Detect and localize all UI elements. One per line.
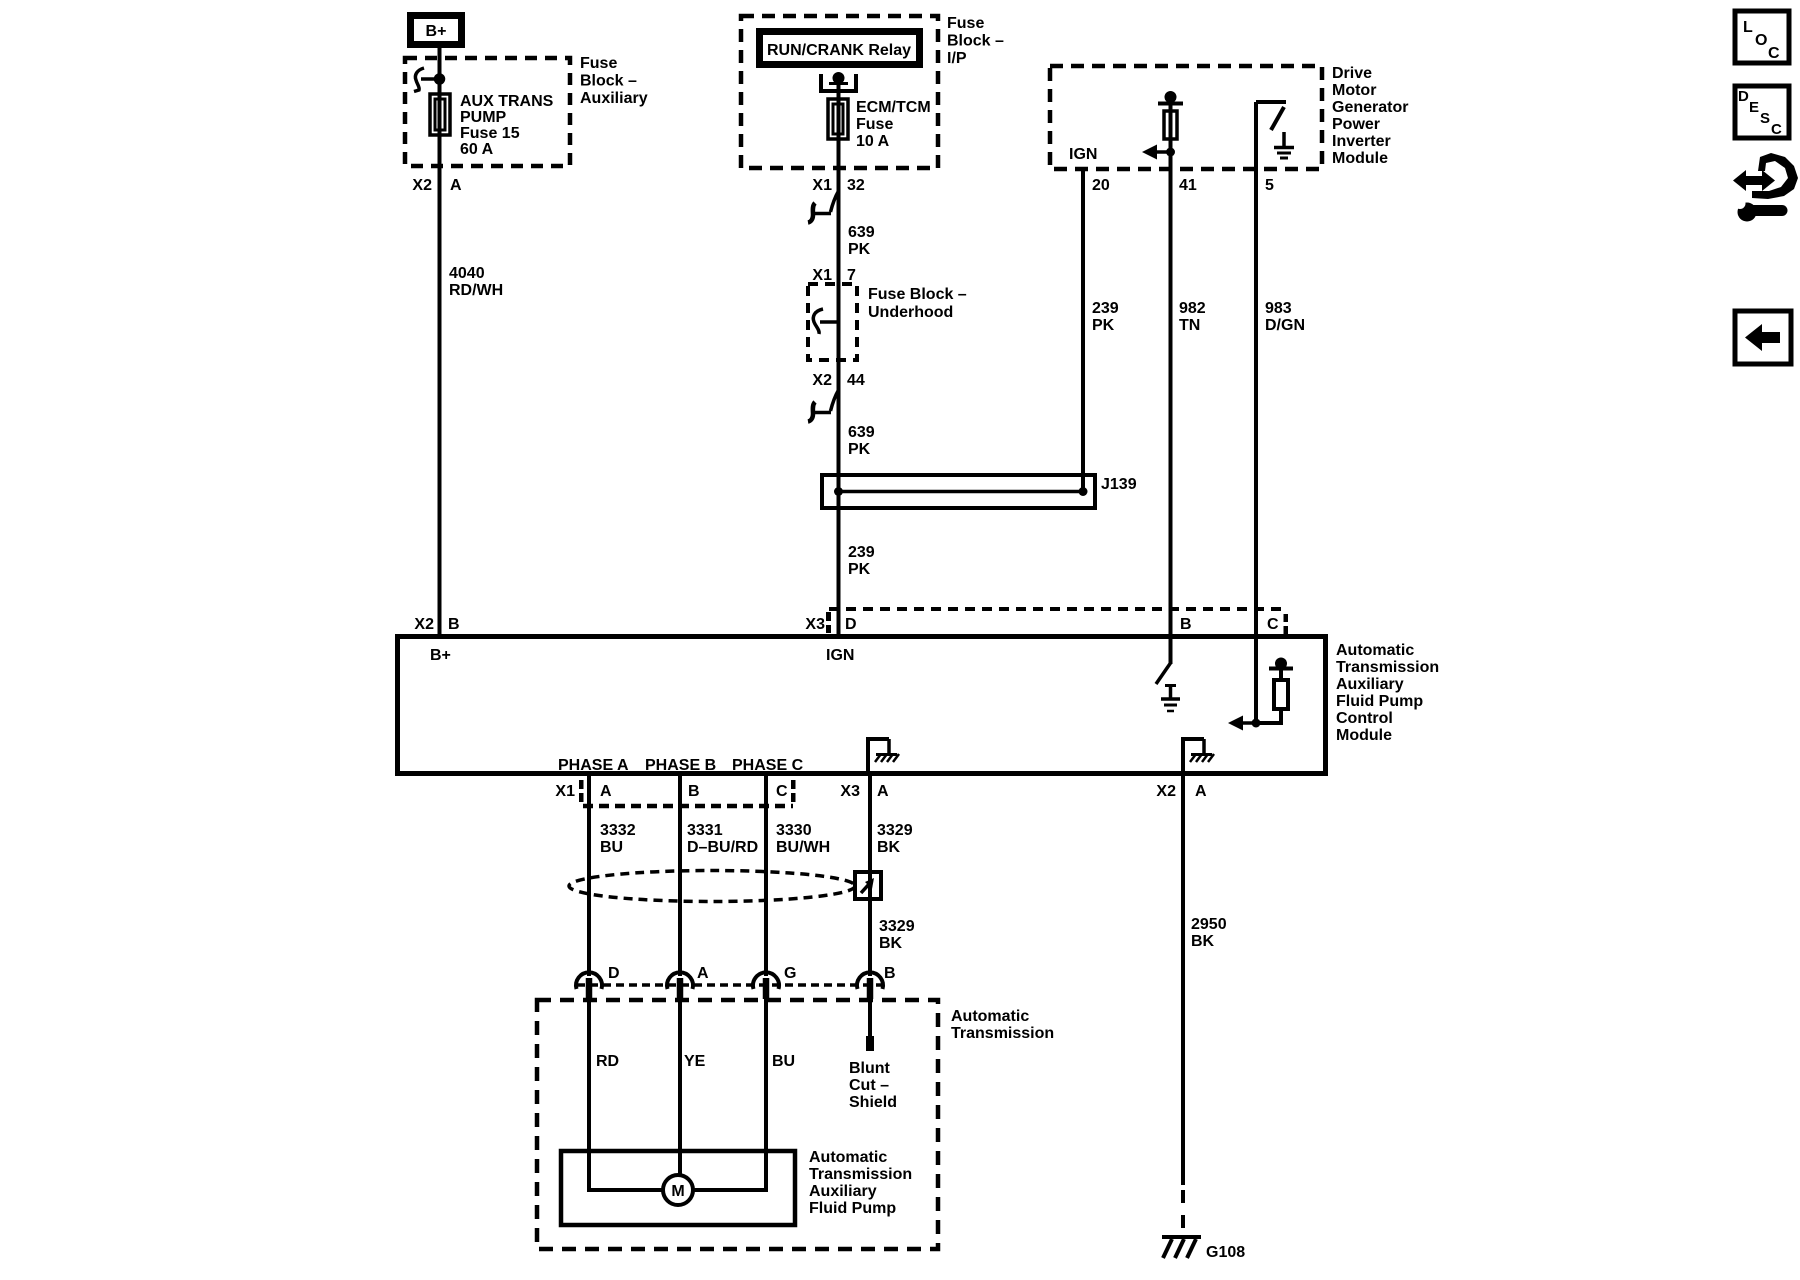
svg-text:239: 239 bbox=[848, 544, 875, 561]
connector arc pin B bbox=[857, 972, 883, 989]
svg-text:B+: B+ bbox=[426, 23, 447, 40]
svg-text:4040: 4040 bbox=[449, 265, 485, 282]
svg-text:32: 32 bbox=[847, 177, 865, 194]
svg-text:A: A bbox=[600, 783, 612, 800]
svg-text:X1: X1 bbox=[812, 177, 832, 194]
svg-text:639: 639 bbox=[848, 424, 875, 441]
pin X2 44 of fuse block underhood bbox=[812, 372, 864, 389]
svg-text:639: 639 bbox=[848, 224, 875, 241]
label Blunt Cut Shield bbox=[849, 1060, 897, 1111]
label Fuse Block I/P bbox=[947, 15, 1004, 67]
connector arc pin D bbox=[576, 972, 602, 989]
label Drive Motor Generator Power Inverter Module bbox=[1332, 65, 1408, 167]
terminal hook at X2 44 bbox=[808, 390, 839, 422]
svg-text:D–BU/RD: D–BU/RD bbox=[687, 839, 758, 856]
pins 20 41 5 labels bbox=[1092, 177, 1274, 194]
related-info icon (arrows and wrench) bbox=[1733, 153, 1798, 222]
svg-text:C: C bbox=[1267, 616, 1279, 633]
ground G108 bbox=[1162, 1237, 1245, 1261]
connector pin letters D A G B bbox=[608, 965, 896, 982]
shield drain box on 3329 BK bbox=[855, 872, 881, 899]
svg-text:Fluid Pump: Fluid Pump bbox=[809, 1200, 896, 1217]
svg-text:Shield: Shield bbox=[849, 1094, 897, 1111]
wire label 4040 RD/WH bbox=[449, 265, 503, 299]
fuse F15 AUX TRANS PUMP 60A bbox=[430, 94, 450, 135]
svg-text:5: 5 bbox=[1265, 177, 1274, 194]
switch to ground inside module (pin B) bbox=[1156, 663, 1180, 711]
svg-text:D: D bbox=[1738, 88, 1749, 105]
terminal hook inside underhood box bbox=[813, 309, 838, 334]
svg-text:PK: PK bbox=[1092, 317, 1115, 334]
splice pack J139 bbox=[822, 475, 1137, 508]
chassis ground inside module (X3 A) bbox=[868, 739, 899, 774]
svg-text:Transmission: Transmission bbox=[1336, 659, 1439, 676]
svg-text:Automatic: Automatic bbox=[951, 1008, 1029, 1025]
svg-text:3331: 3331 bbox=[687, 822, 723, 839]
svg-text:PK: PK bbox=[848, 561, 871, 578]
svg-text:3332: 3332 bbox=[600, 822, 636, 839]
svg-text:Automatic: Automatic bbox=[1336, 642, 1414, 659]
svg-text:Drive: Drive bbox=[1332, 65, 1372, 82]
fuse block I/P dashed box bbox=[741, 16, 938, 168]
svg-text:B: B bbox=[448, 616, 460, 633]
svg-text:D/GN: D/GN bbox=[1265, 317, 1305, 334]
ground inside inverter bbox=[1274, 132, 1294, 158]
svg-text:X3: X3 bbox=[805, 616, 825, 633]
arrow to IGN node bbox=[1142, 145, 1175, 160]
wire label 639 PK (upper) bbox=[848, 224, 875, 258]
svg-text:PHASE A: PHASE A bbox=[558, 757, 629, 774]
svg-text:7: 7 bbox=[847, 267, 856, 284]
pin row X1 A B C / X3 A labels bbox=[555, 783, 889, 800]
wire label 239 PK (right) bbox=[1092, 300, 1119, 334]
svg-text:BK: BK bbox=[877, 839, 901, 856]
wire BU bbox=[693, 999, 766, 1190]
svg-text:Automatic: Automatic bbox=[809, 1149, 887, 1166]
wire label 983 D/GN bbox=[1265, 300, 1305, 334]
svg-text:AUX TRANS: AUX TRANS bbox=[460, 93, 554, 110]
pin X1 32 of fuse block I/P bbox=[812, 177, 864, 194]
svg-text:BU: BU bbox=[772, 1053, 795, 1070]
svg-text:Fuse Block –: Fuse Block – bbox=[868, 286, 967, 303]
motor M bbox=[663, 1175, 693, 1205]
svg-text:982: 982 bbox=[1179, 300, 1206, 317]
svg-text:BK: BK bbox=[879, 935, 903, 952]
svg-text:C: C bbox=[1771, 121, 1782, 138]
wire: phase C (3330 BU/WH) bbox=[764, 774, 768, 976]
svg-text:Inverter: Inverter bbox=[1332, 133, 1391, 150]
wire: B+ to module X2 B (4040 RD/WH) bbox=[438, 45, 442, 636]
control module box bbox=[398, 637, 1326, 774]
svg-text:Generator: Generator bbox=[1332, 99, 1408, 116]
svg-text:L: L bbox=[1743, 19, 1753, 36]
svg-text:A: A bbox=[877, 783, 889, 800]
fuse ECM/TCM 10 A bbox=[828, 99, 848, 139]
svg-text:X3: X3 bbox=[840, 783, 860, 800]
pin X1 7 of fuse block underhood bbox=[812, 267, 856, 284]
node labels PHASE A PHASE B PHASE C bbox=[558, 757, 804, 774]
terminal hook at X1 32 bbox=[808, 191, 839, 223]
wire: inverter pin 20 to J139 (239 PK) bbox=[1081, 169, 1085, 491]
svg-text:Cut –: Cut – bbox=[849, 1077, 889, 1094]
wire label 982 TN bbox=[1179, 300, 1206, 334]
svg-text:D: D bbox=[608, 965, 620, 982]
terminal hook at fuse (aux) bbox=[414, 68, 444, 92]
svg-text:Block –: Block – bbox=[947, 33, 1004, 50]
svg-text:PHASE C: PHASE C bbox=[732, 757, 804, 774]
svg-text:G: G bbox=[784, 965, 796, 982]
pin X3 D labels bbox=[805, 616, 856, 633]
chassis ground inside module (X2 A) bbox=[1183, 739, 1214, 774]
wire RD bbox=[589, 999, 663, 1190]
svg-text:60 A: 60 A bbox=[460, 141, 494, 158]
svg-text:Fuse: Fuse bbox=[580, 55, 617, 72]
connector arc pin A bbox=[667, 972, 693, 989]
svg-text:Auxiliary: Auxiliary bbox=[809, 1183, 877, 1200]
svg-text:44: 44 bbox=[847, 372, 865, 389]
svg-text:D: D bbox=[845, 616, 857, 633]
pin X2 A labels (right) bbox=[1156, 783, 1207, 800]
svg-text:Fuse: Fuse bbox=[947, 15, 984, 32]
relay RUN/CRANK bbox=[760, 32, 920, 65]
svg-text:A: A bbox=[1195, 783, 1207, 800]
svg-text:G108: G108 bbox=[1206, 1244, 1245, 1261]
svg-text:O: O bbox=[1755, 32, 1767, 49]
svg-text:PHASE B: PHASE B bbox=[645, 757, 716, 774]
resistor inside module bbox=[1274, 680, 1288, 709]
wire pin C down inside module bbox=[1254, 636, 1258, 723]
svg-text:Auxiliary: Auxiliary bbox=[1336, 676, 1404, 693]
svg-text:Auxiliary: Auxiliary bbox=[580, 90, 648, 107]
svg-text:J139: J139 bbox=[1101, 476, 1137, 493]
wire YE bbox=[678, 999, 682, 1176]
svg-text:Underhood: Underhood bbox=[868, 304, 953, 321]
svg-text:X2: X2 bbox=[1156, 783, 1176, 800]
svg-text:E: E bbox=[1749, 99, 1759, 116]
svg-text:Fluid Pump: Fluid Pump bbox=[1336, 693, 1423, 710]
wire label 2950 BK bbox=[1191, 916, 1227, 950]
svg-text:41: 41 bbox=[1179, 177, 1197, 194]
relay output terminal bracket bbox=[821, 74, 856, 91]
wire label 3329 BK (lower) bbox=[879, 918, 915, 952]
svg-text:IGN: IGN bbox=[1069, 146, 1097, 163]
svg-text:20: 20 bbox=[1092, 177, 1110, 194]
label AUX TRANS PUMP Fuse 15 60 A bbox=[460, 93, 554, 158]
svg-text:X1: X1 bbox=[555, 783, 575, 800]
automatic transmission dashed box bbox=[537, 1000, 938, 1249]
svg-text:C: C bbox=[1768, 45, 1780, 62]
label Fuse Block Underhood bbox=[868, 286, 967, 321]
svg-text:B: B bbox=[688, 783, 700, 800]
DESC icon box bbox=[1735, 86, 1789, 138]
label Automatic Transmission bbox=[951, 1008, 1054, 1042]
pin X2 A of fuse block auxiliary bbox=[412, 177, 462, 194]
wire: inverter pin 5 to module X3 C (983 D/GN) bbox=[1254, 102, 1258, 636]
wire label 3330 BU/WH bbox=[776, 822, 830, 856]
svg-text:X2: X2 bbox=[412, 177, 432, 194]
fluid pump box bbox=[561, 1151, 795, 1225]
svg-text:C: C bbox=[776, 783, 788, 800]
svg-text:PK: PK bbox=[848, 441, 871, 458]
svg-text:Transmission: Transmission bbox=[951, 1025, 1054, 1042]
wire: ground shield (3329 BK) bbox=[868, 774, 872, 976]
connector X1 dashed grouping bbox=[579, 780, 796, 806]
blunt cut shield wire bbox=[868, 999, 872, 1036]
svg-text:Control: Control bbox=[1336, 710, 1393, 727]
resistor inside inverter (pin 41) bbox=[1164, 111, 1177, 139]
svg-text:Motor: Motor bbox=[1332, 82, 1376, 99]
svg-text:BU: BU bbox=[600, 839, 623, 856]
wire: module X2 A to G108 (2950 BK) bbox=[1181, 774, 1185, 1185]
wire: inverter pin 41 to module X3 B (982 TN) bbox=[1169, 103, 1173, 664]
wire: phase A (3332 BU) bbox=[587, 774, 591, 976]
svg-text:IGN: IGN bbox=[826, 647, 854, 664]
svg-text:10 A: 10 A bbox=[856, 133, 890, 150]
switch inside inverter (pin 5) bbox=[1256, 102, 1286, 130]
svg-text:X2: X2 bbox=[812, 372, 832, 389]
svg-text:B: B bbox=[884, 965, 896, 982]
svg-text:YE: YE bbox=[684, 1053, 706, 1070]
back arrow icon box bbox=[1735, 311, 1791, 364]
svg-text:Power: Power bbox=[1332, 116, 1380, 133]
svg-text:B: B bbox=[1180, 616, 1192, 633]
svg-text:Transmission: Transmission bbox=[809, 1166, 912, 1183]
wire label 239 PK (below J139) bbox=[848, 544, 875, 578]
svg-text:A: A bbox=[697, 965, 709, 982]
connector arc pin G bbox=[753, 972, 779, 989]
voltage supply tap above resistor pin 41 bbox=[1158, 93, 1183, 104]
svg-text:Module: Module bbox=[1336, 727, 1392, 744]
wire label 3329 BK (upper) bbox=[877, 822, 913, 856]
svg-text:RUN/CRANK Relay: RUN/CRANK Relay bbox=[767, 42, 911, 59]
svg-text:3330: 3330 bbox=[776, 822, 812, 839]
svg-text:PUMP: PUMP bbox=[460, 109, 507, 126]
connector X3 dashed grouping bbox=[826, 609, 1288, 634]
svg-text:Module: Module bbox=[1332, 150, 1388, 167]
label Automatic Transmission Auxiliary Fluid Pump bbox=[809, 1149, 912, 1217]
LOC icon box bbox=[1735, 11, 1789, 63]
svg-text:X1: X1 bbox=[812, 267, 832, 284]
wire label 3332 BU bbox=[600, 822, 636, 856]
svg-text:S: S bbox=[1760, 110, 1770, 127]
svg-text:3329: 3329 bbox=[879, 918, 915, 935]
svg-text:X2: X2 bbox=[414, 616, 434, 633]
svg-text:Fuse: Fuse bbox=[856, 116, 893, 133]
svg-text:A: A bbox=[450, 177, 462, 194]
svg-text:I/P: I/P bbox=[947, 50, 967, 67]
svg-text:M: M bbox=[671, 1183, 684, 1200]
label ECM/TCM Fuse 10 A bbox=[856, 99, 931, 150]
svg-text:Block –: Block – bbox=[580, 73, 637, 90]
svg-text:RD/WH: RD/WH bbox=[449, 282, 503, 299]
svg-text:2950: 2950 bbox=[1191, 916, 1227, 933]
svg-text:B+: B+ bbox=[430, 647, 451, 664]
voltage supply tap above resistor in module bbox=[1269, 660, 1293, 681]
fuse block auxiliary dashed box bbox=[405, 58, 570, 166]
drive motor generator power inverter module dashed box bbox=[1050, 66, 1322, 169]
wire label 3331 D-BU/RD bbox=[687, 822, 758, 856]
svg-text:RD: RD bbox=[596, 1053, 619, 1070]
wire: phase B (3331 D-BU/RD) bbox=[678, 774, 682, 976]
svg-text:TN: TN bbox=[1179, 317, 1200, 334]
label Automatic Transmission Auxiliary Fluid Pump Control Module bbox=[1336, 642, 1439, 744]
svg-text:PK: PK bbox=[848, 241, 871, 258]
fuse block underhood dashed box bbox=[808, 284, 857, 360]
svg-text:Fuse 15: Fuse 15 bbox=[460, 125, 520, 142]
connector pin stubs bbox=[589, 978, 870, 999]
node and arrow inside module bbox=[1228, 716, 1261, 731]
label Fuse Block Auxiliary bbox=[580, 55, 648, 107]
shield ellipse around phase wires bbox=[569, 871, 855, 902]
svg-text:3329: 3329 bbox=[877, 822, 913, 839]
svg-text:983: 983 bbox=[1265, 300, 1292, 317]
pin X2 B labels bbox=[414, 616, 459, 633]
wire resistor to node bbox=[1256, 709, 1281, 723]
svg-text:BK: BK bbox=[1191, 933, 1215, 950]
svg-text:239: 239 bbox=[1092, 300, 1119, 317]
connector dashed line bbox=[577, 983, 884, 987]
wire label 639 PK (lower) bbox=[848, 424, 875, 458]
wire: RUN/CRANK relay to module X3 D (639/239 PK) bbox=[837, 74, 841, 636]
svg-text:ECM/TCM: ECM/TCM bbox=[856, 99, 931, 116]
battery feed B+ bbox=[411, 16, 462, 45]
svg-text:Blunt: Blunt bbox=[849, 1060, 891, 1077]
svg-text:BU/WH: BU/WH bbox=[776, 839, 830, 856]
